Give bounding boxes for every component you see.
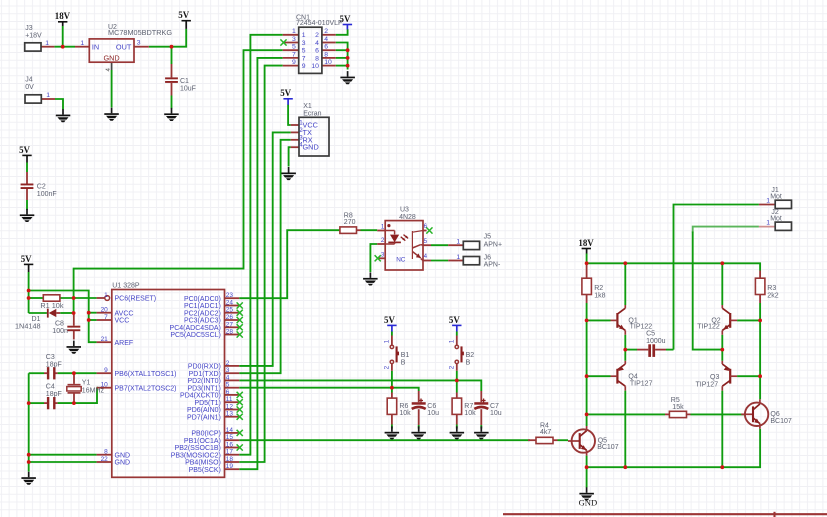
svg-text:PC5(ADC5SCL): PC5(ADC5SCL)	[170, 332, 221, 339]
svg-text:+18V: +18V	[25, 33, 42, 40]
svg-text:C4: C4	[46, 384, 55, 391]
svg-text:18pF: 18pF	[46, 362, 62, 369]
svg-text:PD7(AIN1): PD7(AIN1)	[187, 414, 221, 421]
svg-text:5: 5	[292, 44, 296, 51]
svg-text:J3: J3	[25, 25, 33, 32]
svg-text:PC2(ADC2): PC2(ADC2)	[184, 310, 221, 317]
svg-text:5V: 5V	[178, 10, 189, 20]
svg-text:27: 27	[226, 321, 234, 328]
svg-text:APN+: APN+	[484, 242, 502, 249]
svg-text:4: 4	[226, 374, 230, 381]
svg-text:15: 15	[226, 434, 234, 441]
svg-text:PC3(ADC3): PC3(ADC3)	[184, 318, 221, 325]
svg-text:Mot: Mot	[770, 194, 782, 201]
svg-text:PD6(AIN0): PD6(AIN0)	[187, 407, 221, 414]
svg-text:GND: GND	[115, 452, 131, 459]
svg-text:8: 8	[315, 55, 319, 62]
svg-text:270: 270	[344, 219, 356, 226]
svg-text:1k8: 1k8	[594, 293, 605, 300]
svg-text:7: 7	[302, 55, 306, 62]
svg-text:1: 1	[456, 254, 460, 261]
svg-text:R7: R7	[464, 403, 473, 410]
svg-text:2: 2	[324, 28, 328, 35]
svg-text:4: 4	[105, 68, 112, 72]
svg-text:3: 3	[226, 367, 230, 374]
svg-text:3: 3	[381, 252, 385, 259]
svg-text:1: 1	[456, 238, 460, 245]
svg-text:1: 1	[80, 40, 84, 47]
svg-text:3: 3	[292, 36, 296, 43]
svg-text:Mot: Mot	[770, 215, 782, 222]
svg-text:R3: R3	[767, 285, 776, 292]
svg-text:13: 13	[226, 411, 234, 418]
svg-text:J5: J5	[484, 234, 492, 241]
svg-text:1: 1	[45, 40, 49, 47]
svg-text:9: 9	[104, 367, 108, 374]
svg-text:X1: X1	[303, 103, 312, 110]
svg-text:26: 26	[226, 314, 234, 321]
svg-text:14: 14	[226, 427, 234, 434]
svg-text:19: 19	[226, 463, 234, 470]
svg-text:1: 1	[766, 220, 770, 227]
svg-text:8: 8	[104, 449, 108, 456]
svg-text:3: 3	[302, 40, 306, 47]
svg-text:1: 1	[104, 292, 108, 299]
svg-text:15k: 15k	[672, 404, 684, 411]
svg-text:PC0(ADC0): PC0(ADC0)	[184, 296, 221, 303]
svg-text:4k7: 4k7	[540, 429, 551, 436]
svg-text:R1 10k: R1 10k	[40, 301, 63, 310]
svg-text:U1 328P: U1 328P	[112, 283, 140, 290]
svg-text:APN-: APN-	[484, 262, 501, 269]
svg-text:25: 25	[226, 307, 234, 314]
svg-text:TIP122: TIP122	[697, 324, 720, 331]
svg-text:C7: C7	[490, 403, 499, 410]
svg-text:20: 20	[101, 307, 109, 314]
svg-text:16: 16	[226, 442, 234, 449]
svg-text:5V: 5V	[384, 315, 395, 325]
svg-text:17: 17	[226, 449, 234, 456]
svg-text:12: 12	[226, 404, 234, 411]
svg-text:2: 2	[315, 32, 319, 39]
svg-text:PC6(RESET): PC6(RESET)	[115, 296, 157, 303]
svg-text:NC: NC	[396, 257, 406, 264]
svg-text:U3: U3	[400, 206, 409, 213]
svg-text:18V: 18V	[578, 238, 594, 248]
svg-text:1: 1	[384, 339, 391, 343]
svg-text:8: 8	[324, 51, 328, 58]
svg-text:5V: 5V	[19, 145, 30, 155]
svg-text:6: 6	[424, 223, 428, 230]
svg-text:Q3: Q3	[710, 374, 719, 381]
svg-text:PD2(INT0): PD2(INT0)	[187, 378, 220, 385]
svg-text:18pF: 18pF	[46, 391, 62, 398]
svg-text:PD4(XCKT0): PD4(XCKT0)	[180, 393, 221, 400]
svg-text:C6: C6	[427, 403, 436, 410]
svg-text:4: 4	[424, 253, 428, 260]
svg-text:5V: 5V	[280, 88, 291, 98]
svg-text:10k: 10k	[399, 410, 411, 417]
svg-text:10k: 10k	[464, 410, 476, 417]
svg-text:PB6(XTAL1TOSC1): PB6(XTAL1TOSC1)	[115, 371, 177, 378]
svg-text:1: 1	[449, 339, 456, 343]
svg-text:PB1(OC1A): PB1(OC1A)	[184, 438, 221, 445]
svg-text:6: 6	[226, 389, 230, 396]
svg-text:18V: 18V	[55, 11, 71, 21]
svg-text:TIP127: TIP127	[630, 381, 653, 388]
svg-text:MC78M05BDTRKG: MC78M05BDTRKG	[108, 28, 172, 37]
svg-text:PB2(SSOC1B): PB2(SSOC1B)	[175, 445, 221, 452]
svg-text:10u: 10u	[427, 410, 439, 417]
svg-text:10uF: 10uF	[180, 86, 196, 93]
svg-text:6: 6	[324, 44, 328, 51]
svg-text:PC1(ADC1): PC1(ADC1)	[184, 303, 221, 310]
svg-text:1: 1	[46, 92, 50, 99]
svg-text:PB5(SCK): PB5(SCK)	[189, 467, 221, 474]
svg-text:2: 2	[449, 365, 456, 369]
svg-text:PB4(MISO): PB4(MISO)	[185, 460, 221, 467]
svg-text:11: 11	[226, 396, 233, 403]
svg-text:23: 23	[226, 292, 234, 299]
svg-text:GND: GND	[103, 53, 119, 62]
svg-text:OUT: OUT	[116, 42, 132, 51]
svg-text:1: 1	[766, 198, 770, 205]
svg-text:B2: B2	[466, 352, 475, 359]
svg-text:AREF: AREF	[115, 340, 134, 347]
svg-text:R6: R6	[399, 403, 408, 410]
svg-text:5: 5	[226, 382, 230, 389]
svg-text:4: 4	[315, 40, 319, 47]
svg-text:J6: J6	[484, 255, 492, 262]
svg-text:10: 10	[324, 59, 332, 66]
svg-text:PB0(ICP): PB0(ICP)	[191, 431, 221, 438]
svg-text:5V: 5V	[449, 315, 460, 325]
svg-text:100n: 100n	[52, 328, 68, 335]
svg-text:B: B	[401, 360, 406, 367]
svg-text:10: 10	[311, 63, 319, 70]
svg-text:4: 4	[324, 36, 328, 43]
svg-text:1: 1	[302, 32, 306, 39]
svg-text:24: 24	[226, 300, 234, 307]
svg-text:100nF: 100nF	[37, 191, 57, 198]
svg-text:PC4(ADC4SDA): PC4(ADC4SDA)	[170, 325, 221, 332]
svg-text:5: 5	[424, 238, 428, 245]
svg-text:B: B	[466, 360, 471, 367]
svg-text:4N28: 4N28	[399, 214, 416, 221]
svg-text:GND: GND	[115, 460, 131, 467]
svg-text:R2: R2	[594, 285, 603, 292]
svg-text:6: 6	[315, 48, 319, 55]
svg-text:2: 2	[381, 237, 385, 244]
svg-text:1: 1	[292, 28, 296, 35]
svg-text:5V: 5V	[21, 254, 32, 264]
svg-text:28: 28	[226, 329, 234, 336]
svg-text:PD0(RXD): PD0(RXD)	[188, 364, 221, 371]
svg-text:1: 1	[381, 224, 385, 231]
svg-text:Ecran: Ecran	[303, 110, 321, 117]
svg-text:C2: C2	[37, 183, 46, 190]
svg-text:0V: 0V	[25, 84, 34, 91]
svg-text:C1: C1	[180, 78, 189, 85]
svg-text:IN: IN	[92, 42, 99, 51]
svg-text:16MHz: 16MHz	[82, 388, 105, 395]
svg-text:PD1(TXD): PD1(TXD)	[189, 371, 221, 378]
svg-text:9: 9	[292, 59, 296, 66]
svg-text:2k2: 2k2	[767, 293, 778, 300]
svg-text:21: 21	[101, 336, 109, 343]
svg-text:5: 5	[302, 48, 306, 55]
svg-text:J4: J4	[25, 77, 33, 84]
svg-text:BC107: BC107	[770, 418, 792, 425]
svg-text:VCC: VCC	[115, 318, 130, 325]
svg-text:C3: C3	[46, 354, 55, 361]
svg-text:TIP122: TIP122	[630, 324, 653, 331]
svg-text:GND: GND	[303, 143, 319, 152]
svg-text:22: 22	[101, 456, 109, 463]
svg-text:PD5(T1): PD5(T1)	[194, 400, 220, 407]
svg-text:18: 18	[226, 456, 234, 463]
svg-text:BC107: BC107	[597, 444, 619, 451]
svg-text:Q4: Q4	[628, 373, 637, 380]
svg-text:7: 7	[104, 314, 108, 321]
svg-text:AVCC: AVCC	[115, 310, 134, 317]
svg-text:1N4148: 1N4148	[15, 322, 41, 331]
svg-text:PD3(INT1): PD3(INT1)	[187, 385, 220, 392]
svg-text:72454-010VLF: 72454-010VLF	[296, 20, 342, 27]
svg-text:2: 2	[226, 360, 230, 367]
svg-text:3: 3	[137, 39, 141, 46]
svg-text:TIP127: TIP127	[696, 381, 719, 388]
svg-text:PB7(XTAL2TOSC2): PB7(XTAL2TOSC2)	[115, 385, 177, 392]
svg-text:10u: 10u	[490, 410, 502, 417]
svg-text:9: 9	[302, 63, 306, 70]
svg-text:1000u: 1000u	[646, 338, 666, 345]
svg-text:PB3(MOSIOC2): PB3(MOSIOC2)	[171, 452, 221, 459]
svg-text:C5: C5	[646, 331, 655, 338]
svg-text:GND: GND	[579, 498, 598, 508]
svg-text:Y1: Y1	[82, 380, 91, 387]
svg-text:B1: B1	[401, 352, 410, 359]
svg-text:2: 2	[384, 365, 391, 369]
svg-text:C8: C8	[55, 320, 64, 327]
svg-text:7: 7	[292, 51, 296, 58]
